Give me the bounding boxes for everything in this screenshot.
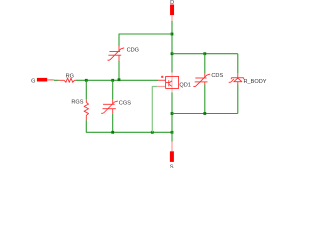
- node junction bottom rail/CDS: [203, 112, 206, 115]
- wire gate rail: [76, 79, 158, 81]
- svg-text:CDG: CDG: [127, 48, 139, 54]
- wire bottom left rail: [113, 131, 172, 133]
- transistor Q1 internal mosfet symbol: [166, 80, 172, 86]
- transistor Q1 body box: [166, 76, 179, 88]
- wire main vertical lower: [171, 92, 173, 141]
- wire G to RG: [54, 79, 59, 81]
- capacitor CDS: [193, 74, 210, 87]
- svg-text:RGS: RGS: [71, 99, 83, 105]
- wire CDG top rail: [119, 34, 172, 46]
- node S port pin rectangle: [170, 151, 174, 162]
- transistor Q1 asterisk: [161, 76, 163, 78]
- node junction main/top right rail: [171, 52, 174, 55]
- wire CGS vertical bottom: [112, 114, 114, 133]
- transistor Q1 source stub: [158, 86, 166, 88]
- wire top right rail: [172, 53, 238, 55]
- wire CDS vertical top: [204, 54, 206, 74]
- node G port pin rectangle: [37, 78, 47, 82]
- wire main vertical upper: [171, 21, 173, 73]
- svg-text:S: S: [170, 164, 174, 168]
- wire R_BODY vertical bottom: [237, 85, 239, 114]
- resistor RG: [59, 78, 76, 82]
- transistor Q1 drain-source pin line (pale): [171, 73, 173, 93]
- wire R_BODY vertical top: [237, 54, 239, 74]
- svg-text:RG: RG: [66, 73, 74, 79]
- wire RGS bottom to rail corner: [86, 120, 112, 132]
- node junction gate/CGS: [111, 79, 114, 82]
- node S port pin stub: [171, 142, 173, 152]
- diode R_BODY: [229, 73, 244, 84]
- node D port pin rectangle: [170, 5, 174, 16]
- svg-text:CDS: CDS: [211, 73, 223, 79]
- capacitor CGS: [101, 99, 118, 113]
- node junction rail/CGS: [111, 131, 114, 134]
- svg-text:CGS: CGS: [119, 101, 131, 107]
- node junction gate/RGS: [85, 79, 88, 82]
- transistor Q1 gate stub: [158, 79, 166, 81]
- node junction main/bottom right rail: [171, 112, 174, 115]
- svg-text:QD1: QD1: [179, 82, 191, 88]
- node G port pin stub: [47, 79, 54, 81]
- wire bottom right rail: [172, 113, 238, 115]
- wire RGS vertical top: [85, 80, 87, 99]
- capacitor CDG: [108, 46, 125, 61]
- resistor RGS: [84, 99, 88, 120]
- node junction gate/CDG: [118, 78, 121, 81]
- wire CDS vertical bottom: [204, 85, 206, 114]
- node D port pin stub: [171, 15, 173, 21]
- wire CGS vertical top: [112, 80, 114, 99]
- svg-text:G: G: [31, 78, 35, 84]
- node junction rail/main vertical: [171, 131, 174, 134]
- wire source sense (pale): [152, 87, 158, 133]
- node junction main/CDG rail: [171, 33, 174, 36]
- node junction top rail/CDS: [203, 52, 206, 55]
- svg-text:R_BODY: R_BODY: [244, 79, 267, 85]
- node junction rail/source sense: [151, 131, 154, 134]
- wire CDG vertical lower: [118, 61, 120, 81]
